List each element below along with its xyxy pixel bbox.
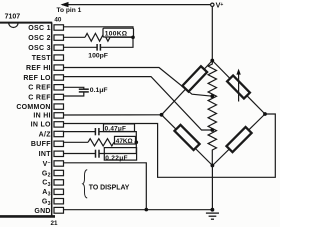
pin IN LO box — [54, 122, 64, 127]
svg-text:0.47μF: 0.47μF — [105, 126, 126, 133]
pin COMMON box — [54, 104, 64, 109]
pin REF HI box — [54, 65, 64, 70]
bridge arm bottom-left — [162, 115, 213, 166]
svg-text:OSC 2: OSC 2 — [28, 35, 51, 42]
wire IN LO loop to bridge right node — [64, 114, 276, 177]
pin GND box — [54, 207, 64, 213]
brace to display — [83, 170, 88, 198]
svg-text:To pin 1: To pin 1 — [57, 7, 82, 14]
wire REF HI — [64, 68, 213, 97]
wire bridge bottom to ground — [211, 166, 213, 210]
svg-text:40: 40 — [54, 17, 62, 24]
svg-text:OSC 1: OSC 1 — [28, 25, 51, 32]
node V- GND junction — [145, 208, 149, 212]
svg-text:G3: G3 — [42, 199, 51, 207]
resistor bridge top-left — [182, 66, 207, 91]
node integrator junction — [135, 141, 139, 145]
resistor bridge middle zigzag — [208, 61, 216, 166]
pin OSC 2 box — [54, 35, 64, 40]
capacitor 0.22uF — [95, 150, 97, 158]
svg-text:21: 21 — [51, 220, 59, 227]
pin BUFF box — [54, 141, 64, 146]
wire OSC2 resistor to junction — [110, 36, 133, 38]
wire A/Z — [64, 131, 96, 133]
pin OSC 1 box — [54, 25, 64, 30]
wire GND — [64, 209, 213, 211]
svg-text:A3: A3 — [42, 189, 51, 197]
wire OSC2 — [64, 36, 86, 38]
svg-text:100pF: 100pF — [88, 53, 108, 60]
wire A/Z cap to junction — [99, 132, 136, 143]
wire BUFF — [64, 141, 89, 143]
wire INT cap to junction — [99, 142, 136, 153]
node ref tap upper — [210, 94, 214, 98]
wire OSC1 — [64, 27, 134, 38]
svg-text:REF LO: REF LO — [23, 75, 51, 82]
wire BUFF resistor to junction — [114, 141, 136, 143]
bridge arm top-right (variable) — [212, 61, 265, 115]
terminal V+ — [211, 3, 214, 6]
node ref tap lower — [210, 128, 214, 132]
node bridge bottom — [211, 164, 215, 168]
svg-text:C REF: C REF — [28, 85, 51, 92]
node bridge top — [210, 59, 214, 63]
svg-text:100KΩ: 100KΩ — [105, 31, 128, 38]
svg-text:IN HI: IN HI — [33, 113, 50, 120]
capacitor 100pF — [99, 44, 101, 51]
node ground junction — [211, 208, 215, 212]
wire V+ down to bridge top — [211, 7, 213, 61]
svg-text:G2: G2 — [42, 170, 51, 178]
pin OSC 3 box — [54, 45, 64, 50]
wire OSC3 — [64, 46, 97, 48]
bridge arm bottom-right — [213, 114, 266, 166]
svg-text:BUFF: BUFF — [31, 141, 51, 148]
label box 0.47uF — [104, 124, 135, 132]
wire C REF 1 — [64, 87, 84, 88]
pin C REF 2 box — [54, 94, 64, 99]
label box 100K — [103, 28, 134, 37]
pin INT box — [54, 151, 64, 156]
bridge arm top-left — [162, 61, 213, 115]
svg-text:C3: C3 — [42, 180, 51, 188]
svg-text:A/Z: A/Z — [39, 131, 52, 138]
svg-text:INT: INT — [39, 151, 52, 158]
pin V- box — [54, 161, 64, 166]
wire V- — [64, 163, 147, 210]
svg-text:0.1μF: 0.1μF — [90, 87, 108, 94]
svg-text:C REF: C REF — [28, 94, 51, 101]
pin C REF 1 box — [54, 85, 64, 90]
pin IN HI box — [54, 113, 64, 118]
label box 0.22uF — [104, 148, 136, 161]
pin G3 box — [54, 199, 64, 204]
node bridge right — [263, 112, 267, 116]
svg-text:IN LO: IN LO — [31, 122, 51, 129]
wire junction down to OSC3 row — [101, 37, 133, 47]
svg-text:V−: V− — [43, 160, 51, 168]
pin TEST box — [54, 55, 64, 60]
resistor bridge top-right variable — [227, 75, 250, 98]
pin A3 box — [54, 189, 64, 194]
wire INT — [64, 153, 96, 155]
IC right edge — [51, 23, 53, 217]
node OSC junction — [131, 36, 135, 40]
svg-text:0.22μF: 0.22μF — [105, 155, 128, 162]
svg-text:TEST: TEST — [32, 55, 52, 62]
pin G2 box — [54, 170, 64, 175]
resistor 100K zigzag — [85, 33, 110, 41]
node bridge left — [160, 113, 164, 117]
IC U1 7107 top edge — [0, 22, 52, 24]
IC notch — [9, 23, 18, 28]
capacitor 0.1uF — [79, 88, 89, 90]
arrow of variable resistor — [238, 73, 240, 102]
ground symbol — [206, 212, 219, 214]
svg-text:OSC 3: OSC 3 — [28, 45, 51, 52]
svg-text:TO DISPLAY: TO DISPLAY — [89, 185, 130, 192]
svg-text:V+: V+ — [216, 1, 224, 10]
svg-text:GND: GND — [34, 208, 50, 215]
wire REF LO — [64, 77, 213, 130]
wire IN HI to bridge left node — [64, 114, 162, 116]
resistor bridge bottom-right — [226, 127, 251, 152]
IC bottom edge — [0, 215, 55, 218]
wire C REF 2 — [64, 93, 84, 97]
pin A/Z box — [54, 131, 64, 136]
resistor bridge bottom-left — [174, 125, 199, 150]
resistor 47K zigzag — [88, 139, 114, 146]
svg-text:COMMON: COMMON — [16, 104, 50, 111]
svg-text:7107: 7107 — [5, 14, 21, 21]
pin C3 box — [54, 180, 64, 185]
pin REF LO box — [54, 75, 64, 80]
svg-text:REF HI: REF HI — [26, 65, 51, 72]
svg-text:47KΩ: 47KΩ — [116, 138, 133, 145]
capacitor 0.47uF — [94, 128, 96, 135]
label box 47K — [115, 136, 136, 144]
arrowhead to pin 1 — [61, 2, 69, 7]
wire V+ rail to pin 1 — [62, 4, 211, 6]
